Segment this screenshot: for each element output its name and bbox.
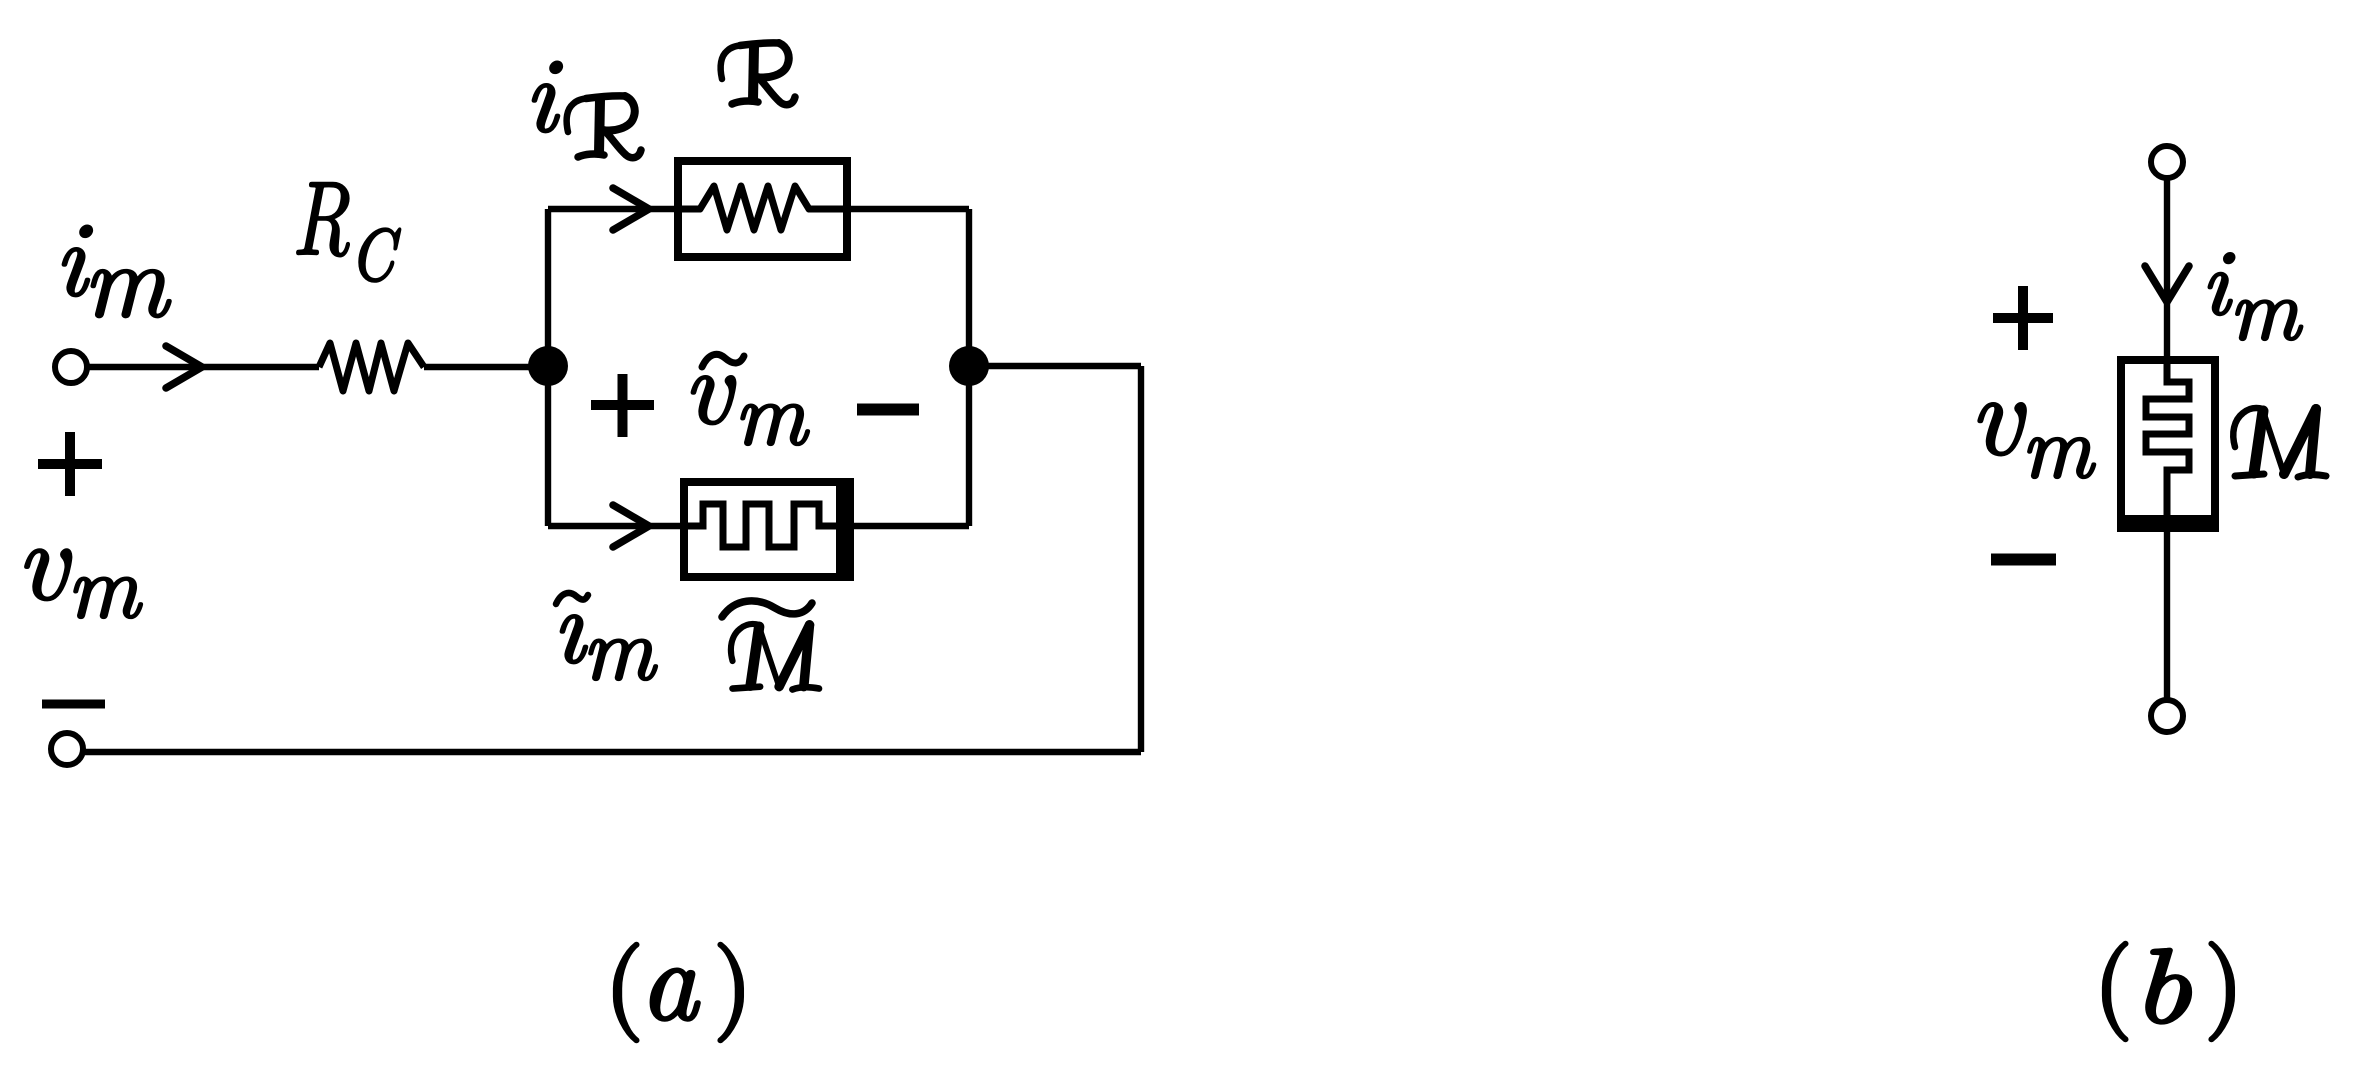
memristor M~ square-wave element [684,504,838,547]
wire top branch to resistor R box [548,206,678,212]
resistor R zigzag element [678,186,847,230]
label i_m (circuit b) [2209,253,2303,340]
wire from right junction to outer right corner [969,363,1141,369]
junction node right (solder dot) [949,346,989,386]
wire outer right vertical down [1138,366,1144,752]
wire left vertical branch (junction to top and bottom branches) [545,209,551,526]
label + polarity of v_m (circuit b) [1993,286,2053,350]
label script M (memristor designator) [2233,408,2326,477]
label script R (emulated resistor) [721,43,795,105]
wire top terminal to memristor M [2164,178,2170,360]
label v_m (circuit b) [1979,403,2096,478]
label - polarity of v~_m [857,404,919,416]
label i_m (input current, circuit a) [63,226,171,317]
memristor M~ polarity bar (thick end) [836,482,850,577]
label i~_m (current through memristor) [561,615,657,680]
junction node left (solder dot) [528,346,568,386]
terminal node + (input terminal, circuit a) [55,351,87,383]
label + polarity of v~_m [591,374,654,437]
label v~_m letters [692,376,809,445]
label i~_m tilde [556,593,588,604]
wire bottom return rail [84,749,1141,755]
arrowhead current i_R direction [613,188,649,230]
terminal top (circuit b) [2151,146,2183,178]
wire top branch from R box to right vertical [847,206,969,212]
memristor M square-wave element (vertical) [2146,360,2189,515]
terminal bottom (circuit b) [2151,700,2183,732]
memristor M box outline (circuit b) [2121,360,2215,528]
wire input from + terminal to resistor RC [87,364,319,370]
wire from RC to left junction node [424,364,548,370]
label script R subscript of i_R [567,96,641,158]
label R_C (value label) [297,183,400,282]
resistor R box outline [678,161,847,257]
label - polarity of v_m (input) [42,700,105,709]
caption (b) [2104,943,2233,1041]
caption (a) [615,944,742,1042]
wire bottom branch to memristor box [548,523,684,529]
label v~_m (voltage across parallel pair) tilde [702,354,744,367]
memristor M polarity bar (thick bottom end) [2121,515,2215,528]
label v_m (input voltage, circuit a) [25,549,142,617]
resistor RC (series compliance resistor) zigzag [319,343,424,391]
memristor M~ box outline [684,482,850,577]
label i_R (current through resistor R) [533,62,562,132]
arrowhead current i_m direction [166,346,202,388]
label script M~ (emulated memristor) [731,624,819,690]
arrowhead current i~_m direction [613,505,649,547]
wire right vertical branch [966,209,972,526]
arrowhead current i_m direction (circuit b) [2145,266,2189,302]
terminal node - (bottom terminal, circuit a) [51,733,83,765]
label - polarity of v_m (circuit b) [1991,554,2056,566]
label M~ wide tilde [722,601,812,617]
label + polarity of v_m (input) [38,432,102,496]
wire bottom branch from memristor to right vertical [850,523,969,529]
wire memristor M to bottom terminal [2164,528,2170,700]
